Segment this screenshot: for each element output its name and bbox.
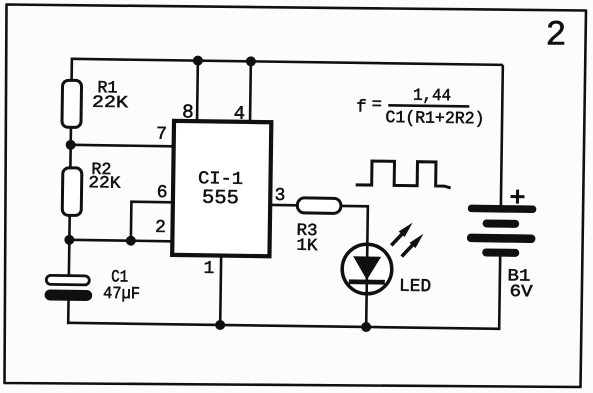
wire pin 4 xyxy=(249,61,252,120)
svg-text:f: f xyxy=(356,98,366,117)
wire top supply rail xyxy=(72,59,503,65)
svg-text:6V: 6V xyxy=(509,283,533,302)
label battery plus sign xyxy=(510,189,524,203)
wire pin 2 xyxy=(69,240,171,241)
junction node R1/R2/pin7 xyxy=(66,140,76,150)
label CI-1 555 xyxy=(198,169,244,210)
junction node pin4 top rail xyxy=(246,56,256,66)
label R1 22K xyxy=(92,79,129,113)
svg-text:C1(R1+2R2): C1(R1+2R2) xyxy=(385,109,484,129)
IC CI-1 555 timer xyxy=(172,121,271,256)
emission arrow 1 xyxy=(391,222,412,245)
svg-text:=: = xyxy=(372,96,382,115)
square wave symbol xyxy=(356,161,451,188)
wire C1 bottom lead xyxy=(67,300,70,324)
label B1 6V xyxy=(507,267,534,302)
label R3 1K xyxy=(296,222,318,256)
svg-text:2: 2 xyxy=(545,16,566,56)
label C1 47uF xyxy=(103,268,140,304)
wire pin 8 xyxy=(196,61,199,120)
svg-text:7: 7 xyxy=(156,125,167,145)
wire R3 to LED xyxy=(341,206,368,243)
svg-text:22K: 22K xyxy=(92,94,129,114)
svg-text:6: 6 xyxy=(156,183,167,203)
junction node LED ground rail xyxy=(361,322,371,332)
svg-text:22K: 22K xyxy=(88,174,121,193)
wire pin 1 xyxy=(219,255,223,325)
svg-text:2: 2 xyxy=(155,218,166,238)
wire pin 7 xyxy=(71,145,173,146)
wire bottom ground rail xyxy=(67,323,499,329)
wire positive rail down to battery xyxy=(501,65,503,206)
svg-text:LED: LED xyxy=(399,277,431,297)
svg-text:1K: 1K xyxy=(296,237,318,256)
formula f = 1,44 / C1(R1+2R2) xyxy=(356,86,485,129)
wire R2 bottom lead xyxy=(68,216,71,241)
wire R1 to R2 link xyxy=(69,127,72,169)
svg-text:3: 3 xyxy=(274,186,285,206)
battery B1 plates xyxy=(467,205,537,258)
wire R1 top lead xyxy=(70,58,73,80)
capacitor C1 xyxy=(45,275,93,301)
junction node pin8 top rail xyxy=(193,56,203,66)
svg-text:1: 1 xyxy=(203,259,214,279)
wire pin 6 branch xyxy=(131,202,172,242)
emission arrow 2 xyxy=(402,233,424,256)
wire C1 top lead xyxy=(68,240,71,276)
LED xyxy=(341,243,392,328)
resistor R3 xyxy=(297,198,341,214)
svg-text:47µF: 47µF xyxy=(103,285,140,305)
wire battery negative lead xyxy=(499,256,500,330)
resistor R1 xyxy=(62,80,82,127)
label R2 22K xyxy=(88,161,121,194)
junction node pin6 branch xyxy=(126,236,136,246)
resistor R2 xyxy=(62,168,82,216)
svg-text:1,44: 1,44 xyxy=(413,87,451,107)
wire pin 3 xyxy=(272,204,297,207)
svg-text:555: 555 xyxy=(202,187,239,211)
junction node R2/C1/pin2 xyxy=(64,235,74,245)
junction node pin1 ground rail xyxy=(215,320,225,330)
